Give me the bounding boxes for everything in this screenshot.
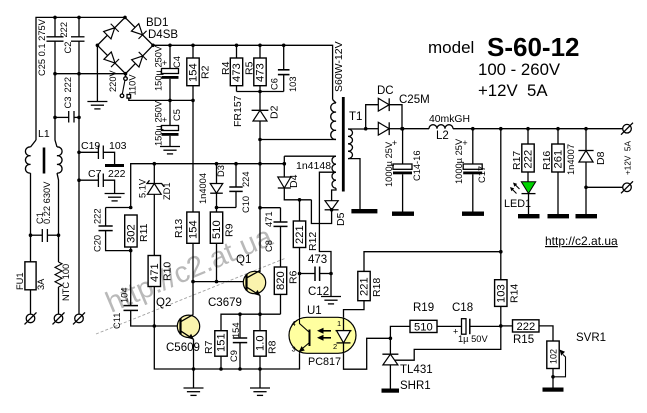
svg-text:R14: R14 (509, 284, 521, 303)
zener ZD1 5.1V (138, 162, 173, 256)
wire TL431 cathode up (390, 326, 410, 338)
svg-text:3: 3 (292, 345, 296, 354)
svg-text:R16: R16 (541, 151, 553, 170)
wire aux tap (319, 172, 336, 273)
svg-text:150µ 250V: 150µ 250V (154, 45, 164, 91)
svg-text:D5: D5 (335, 212, 347, 226)
resistor R5 (244, 44, 267, 92)
resistor R13 (173, 212, 200, 314)
svg-text:C2: C2 (63, 42, 73, 54)
svg-text:R13: R13 (173, 219, 185, 238)
terminal +12V (621, 123, 633, 135)
capacitor C2 (59, 16, 85, 76)
svg-text:C25 0.1 275V: C25 0.1 275V (37, 18, 47, 76)
svg-text:R15: R15 (513, 334, 534, 346)
svg-text:1n4004: 1n4004 (198, 173, 208, 204)
wire TL431 ref (395, 326, 501, 361)
svg-text:FU1: FU1 (15, 272, 25, 290)
svg-text:222: 222 (63, 77, 73, 93)
resistor R12 (293, 200, 319, 274)
svg-text:103: 103 (496, 284, 508, 303)
bridge BD1 frame (97, 17, 153, 73)
svg-text:+12V 5A: +12V 5A (624, 141, 633, 175)
svg-text:R19: R19 (413, 302, 434, 314)
svg-text:D3: D3 (216, 165, 226, 177)
node bridge bottom (124, 72, 128, 76)
ground (C12) (321, 274, 341, 304)
diode D8 1n4007 (566, 127, 607, 214)
wire rail2 (54, 17, 56, 36)
ground (R8) (250, 388, 270, 395)
svg-text:221: 221 (294, 225, 306, 244)
resistor R16 (541, 127, 565, 214)
LED LED1 (504, 182, 536, 214)
svg-text:222: 222 (523, 150, 535, 169)
svg-text:Q1: Q1 (236, 254, 251, 266)
svg-text:220V: 220V (108, 69, 118, 92)
ground bar (C19) (105, 164, 124, 167)
svg-text:471: 471 (149, 263, 161, 282)
svg-text:1000µ 25V: 1000µ 25V (454, 138, 464, 184)
svg-text:D8: D8 (595, 151, 607, 165)
wire top rail (36, 17, 125, 140)
svg-text:1µ 50V: 1µ 50V (458, 334, 488, 344)
wire +12V feedback (500, 129, 502, 280)
capacitor C6 (270, 44, 299, 93)
svg-text:NTC 100: NTC 100 (61, 264, 71, 301)
svg-text:1000µ 25V: 1000µ 25V (384, 141, 394, 187)
capacitor C19 (77, 140, 126, 164)
svg-text:100 - 260V: 100 - 260V (478, 60, 561, 79)
ground bar (LED1) (518, 214, 540, 218)
potentiometer SVR1 (547, 332, 606, 388)
capacitor C20 (93, 208, 131, 253)
ground bar (R16) (548, 214, 570, 218)
resistor R14 (495, 280, 521, 326)
terminal 0V (621, 181, 633, 193)
svg-text:R10: R10 (162, 262, 174, 281)
svg-text:+12V 5A: +12V 5A (478, 81, 548, 100)
svg-text:R5: R5 (244, 61, 256, 75)
svg-text:1n4148: 1n4148 (296, 160, 331, 172)
capacitor C1 (29, 181, 61, 242)
svg-text:C9: C9 (229, 350, 239, 362)
svg-text:C20: C20 (93, 235, 103, 252)
node bridge left (96, 44, 100, 48)
resistor R18 (358, 250, 503, 301)
wire earth column (78, 74, 80, 314)
wire U1 pin4 (299, 274, 301, 318)
diode D3 1n4004 (198, 162, 226, 209)
resistor R4 (220, 44, 243, 92)
svg-text:222: 222 (93, 208, 103, 224)
transformer T1 core (342, 97, 345, 192)
svg-text:110V: 110V (128, 74, 138, 96)
transistor Q1 C3679 (208, 254, 266, 314)
svg-text:PC817: PC817 (308, 356, 341, 368)
svg-text:C3: C3 (63, 97, 73, 109)
svg-text:221: 221 (359, 277, 371, 296)
capacitor C8 (258, 206, 287, 267)
node bridge right (151, 44, 155, 48)
svg-text:C17: C17 (477, 166, 487, 183)
capacitor C5 (154, 100, 183, 146)
resistor R19 (410, 302, 462, 334)
fuse FU1 (15, 235, 46, 314)
svg-text:222: 222 (108, 168, 126, 180)
wire HV rail (153, 45, 333, 99)
wire emitter line (221, 314, 281, 331)
svg-text:http://c2.at.ua: http://c2.at.ua (545, 234, 618, 248)
ground bar (C14-16) (392, 212, 414, 216)
resistor R6 (274, 267, 299, 314)
svg-text:R17: R17 (511, 151, 523, 170)
svg-text:510: 510 (211, 220, 223, 239)
capacitor C3 (53, 74, 81, 123)
svg-text:1: 1 (337, 319, 341, 328)
svg-text:R2: R2 (200, 65, 212, 79)
switch 110V/220V (108, 69, 170, 100)
ground (Q2) (184, 388, 204, 395)
ground (C7) (105, 194, 125, 201)
capacitor C12 473 (298, 254, 333, 298)
svg-text:S-60-12: S-60-12 (487, 32, 580, 62)
resistor R10 (148, 256, 173, 328)
svg-text:C4: C4 (172, 56, 182, 68)
wire aux rail (131, 164, 285, 208)
svg-text:TL431: TL431 (400, 364, 433, 376)
diode D4 1n4148 (278, 156, 312, 201)
svg-text:SHR1: SHR1 (400, 380, 431, 392)
svg-text:103: 103 (109, 140, 127, 152)
svg-text:473: 473 (231, 63, 243, 82)
wire U1 pin2 to TL431 (344, 338, 391, 369)
svg-text:510: 510 (414, 322, 433, 334)
inductor L2 40mkGH (429, 114, 470, 142)
svg-text:S60W-12V: S60W-12V (333, 41, 345, 92)
svg-text:103: 103 (288, 76, 298, 92)
svg-text:3A: 3A (36, 278, 46, 290)
svg-text:R11: R11 (138, 223, 150, 242)
svg-text:473: 473 (255, 63, 267, 82)
svg-text:104: 104 (120, 287, 130, 303)
ground bar SHR1 (382, 389, 400, 393)
capacitor C17 (454, 127, 487, 212)
diode D2 FR157 (232, 92, 281, 140)
svg-text:1.0: 1.0 (255, 335, 267, 351)
svg-text:ZD1: ZD1 (162, 182, 172, 200)
diode DC lower (364, 122, 404, 135)
capacitor C25 (37, 16, 64, 76)
svg-text:C19: C19 (81, 140, 100, 152)
watermark line (96, 258, 286, 334)
svg-text:151: 151 (216, 333, 228, 352)
diode DC upper (366, 85, 430, 129)
svg-text:154: 154 (231, 322, 241, 338)
wire U1 pin1 to R18 (344, 301, 365, 318)
svg-text:FR157: FR157 (232, 95, 244, 127)
svg-text:473: 473 (308, 254, 327, 266)
transformer T1 secondary (348, 111, 366, 209)
wire rail3 (170, 99, 193, 101)
wire output rail 2 (453, 128, 623, 130)
node bridge top (123, 16, 127, 20)
svg-text:R18: R18 (371, 278, 383, 297)
svg-text:Q2: Q2 (156, 297, 171, 309)
resistor R17 (511, 127, 535, 182)
resistor R7 (203, 331, 228, 371)
transformer T1 primary (331, 41, 345, 139)
terminal earth (73, 312, 85, 324)
transistor Q2 C5609 (154, 297, 200, 388)
terminal AC N (53, 312, 65, 324)
resistor R9 (210, 208, 235, 282)
svg-text:224: 224 (241, 171, 251, 187)
svg-text:C5: C5 (172, 109, 182, 121)
svg-text:261: 261 (553, 150, 565, 169)
svg-text:40mkGH: 40mkGH (429, 114, 470, 125)
svg-text:C18: C18 (452, 302, 473, 314)
ground bar (SVR1) (543, 388, 564, 392)
svg-text:222: 222 (517, 321, 536, 333)
capacitor C9 (229, 314, 247, 371)
svg-text:L1: L1 (38, 128, 50, 140)
svg-text:BD1: BD1 (146, 17, 168, 29)
inductor L1 (25, 117, 62, 235)
wire output minus (586, 186, 623, 188)
optocoupler U1 PC817 (289, 305, 356, 368)
capacitor C4 (154, 44, 183, 103)
terminal AC L (25, 312, 37, 324)
capacitor C11 (112, 251, 154, 329)
ground (C5) (160, 147, 180, 154)
svg-text:302: 302 (126, 224, 138, 243)
svg-text:LED1: LED1 (504, 198, 531, 210)
svg-text:471: 471 (264, 211, 274, 227)
svg-text:150µ 250V: 150µ 250V (154, 100, 164, 146)
resistor R15 (501, 320, 553, 346)
capacitor C14-16 (384, 127, 422, 212)
wire D2 to primary bottom (260, 139, 336, 141)
bridge diode bottom-left (104, 52, 119, 67)
svg-text:1n4007: 1n4007 (566, 144, 576, 175)
svg-text:U1: U1 (307, 305, 322, 317)
bridge diode bottom-right (131, 52, 146, 67)
svg-text:222: 222 (59, 22, 69, 38)
wire base line (193, 281, 245, 283)
svg-text:D2: D2 (269, 105, 281, 119)
svg-text:R12: R12 (307, 232, 319, 251)
svg-text:T1: T1 (349, 111, 362, 123)
svg-text:C10: C10 (241, 196, 251, 213)
wire output rail (402, 128, 429, 130)
wire D2 column down (259, 140, 261, 273)
bridge diode top-left (103, 24, 118, 39)
ground bar (T1 secondary) (351, 209, 377, 213)
wire R2 column down (192, 100, 194, 212)
svg-text:R7: R7 (203, 340, 215, 354)
svg-text:5.1V: 5.1V (138, 178, 148, 198)
svg-text:820: 820 (275, 271, 287, 290)
ground bar (C17) (462, 212, 484, 216)
shunt TL431 (382, 337, 432, 393)
svg-text:R6: R6 (288, 270, 300, 284)
svg-text:102: 102 (549, 349, 559, 364)
resistor R11 (125, 206, 150, 253)
svg-text:154: 154 (188, 63, 200, 82)
svg-text:C11: C11 (112, 313, 122, 329)
svg-text:SVR1: SVR1 (576, 332, 606, 344)
svg-text:4: 4 (292, 319, 296, 328)
svg-text:C7: C7 (88, 168, 102, 180)
svg-text:R8: R8 (267, 340, 279, 354)
diode D5 (311, 188, 347, 226)
thermistor NTC 100 (55, 235, 71, 314)
transformer T1 aux winding (284, 156, 336, 188)
resistor R2 (187, 44, 212, 103)
capacitor C10 (217, 162, 252, 213)
svg-text:D4SB: D4SB (148, 29, 178, 41)
bridge diode top-right (131, 23, 146, 38)
svg-text:C3679: C3679 (208, 297, 242, 309)
svg-text:C5609: C5609 (166, 342, 200, 354)
svg-text:0.22 630V: 0.22 630V (42, 181, 52, 224)
svg-text:C25M: C25M (399, 94, 430, 106)
svg-text:C6: C6 (270, 78, 280, 90)
capacitor C7 (77, 168, 125, 194)
svg-text:C8: C8 (264, 240, 274, 252)
svg-text:154: 154 (188, 220, 200, 239)
svg-text:model: model (428, 38, 474, 57)
wire bridge minus to ground (96, 45, 98, 101)
svg-text:DC: DC (377, 85, 394, 97)
svg-text:L2: L2 (436, 130, 449, 142)
wire clamp bottom (237, 91, 284, 93)
svg-text:C14-16: C14-16 (412, 151, 422, 182)
ground bar (D8) (576, 214, 598, 218)
svg-text:D4: D4 (288, 174, 300, 188)
wire ground bus (154, 326, 299, 369)
resistor R8 (254, 314, 279, 388)
svg-text:R9: R9 (224, 223, 236, 237)
svg-text:R4: R4 (220, 61, 232, 75)
ground (bridge) (87, 102, 107, 109)
capacitor C18 (452, 302, 503, 344)
